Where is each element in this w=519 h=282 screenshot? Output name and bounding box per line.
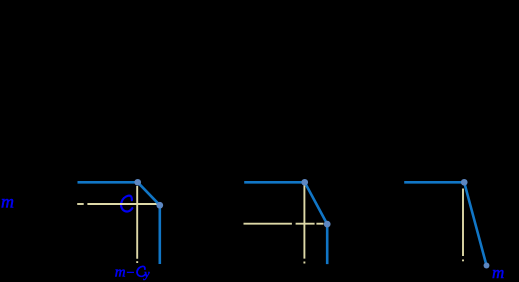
dashed guide horizontal (plot 2) [244,223,324,225]
blue curve (plot 2) [244,182,327,264]
dashed guide vertical (plot 2) [303,185,305,264]
dashed guide horizontal (plot 1) [77,203,157,205]
svg-text:m: m [115,264,126,280]
small calligraphic C in bottom label [137,266,145,276]
marker dot 2 (plot 3) [484,263,490,269]
svg-text:m: m [492,263,504,282]
plot 2 (middle) [244,179,331,264]
marker dot 1 (plot 1) [134,179,141,186]
plot 3 (right) [404,179,504,282]
svg-text:m: m [1,192,14,212]
marker dot 1 (plot 3) [461,179,468,186]
marker dot 1 (plot 2) [301,179,308,186]
plot 1 (left) [1,179,163,281]
dashed guide vertical (plot 1) [136,186,138,263]
blue curve (plot 3) [404,182,486,265]
label C (center, calligraphic) [121,196,132,212]
blue curve (plot 1) [78,182,160,264]
marker dot 2 (plot 2) [324,221,331,228]
marker dot 2 (plot 1) [156,202,163,209]
dashed guide vertical (plot 3) [462,189,464,262]
svg-text:−: − [126,266,135,281]
svg-text:y: y [143,266,150,280]
